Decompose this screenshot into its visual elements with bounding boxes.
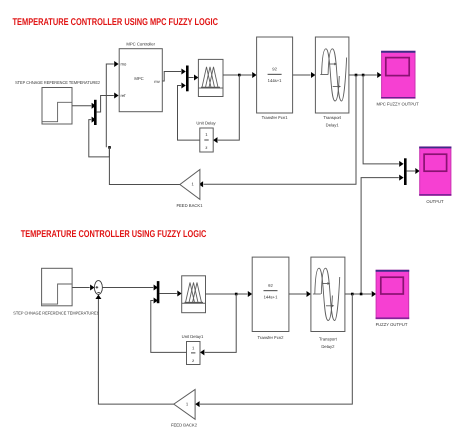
wire Unit Delay to mux2 lower input (178, 83, 200, 141)
transport delay 1 (315, 37, 349, 127)
wire step1 to sum (72, 285, 94, 291)
wire branch to Unit Delay input (213, 75, 239, 143)
fuzzy logic controller 2 (182, 276, 206, 313)
wire fuzzy1 to Transfer Fcn1 (223, 72, 257, 78)
wire TF2 to Transport Delay2 (289, 291, 311, 297)
svg-text:FUZZY OUTPUT: FUZZY OUTPUT (376, 322, 408, 327)
svg-text:92: 92 (268, 283, 273, 288)
wire feedback down to FEED BACK2 (195, 294, 352, 407)
wire FEED BACK2 output to sum minus input (95, 295, 173, 405)
unit delay UD2 (182, 334, 204, 365)
svg-text:STEP CHNAGE REFERENCE TEMPERAT: STEP CHNAGE REFERENCE TEMPERATURE2 (15, 80, 101, 85)
wire TD2 to FUZZY OUTPUT scope (345, 291, 376, 297)
svg-text:Transport: Transport (319, 336, 338, 341)
svg-text:144s+1: 144s+1 (268, 78, 283, 83)
scope OUTPUT (419, 147, 451, 204)
wire feedback to MPC mo (106, 61, 118, 147)
node junction TD1 to output mux (362, 74, 365, 77)
gain FEED BACK2 (171, 390, 198, 428)
wire mux1 to MPC ref (97, 93, 119, 113)
wire Unit Delay1 to mux4 lower input (151, 298, 187, 353)
svg-text:mo: mo (121, 62, 127, 67)
svg-text:Transfer Fcn1: Transfer Fcn1 (262, 115, 289, 120)
svg-text:STEP CHNAGE REFERENCE TEMPERAT: STEP CHNAGE REFERENCE TEMPERATURE1 (13, 311, 99, 316)
step source STEP CHNAGE REFERENCE TEMPERATURE2 (15, 80, 101, 124)
wire fuzzy plant up to output mux bottom (361, 175, 404, 294)
svg-text:92: 92 (272, 67, 277, 72)
mux Mux3 output (404, 158, 407, 185)
node junction mo/mux1 (108, 146, 111, 149)
mux Mux1 (94, 100, 97, 125)
MPC Controller U1 (119, 42, 162, 112)
wire step2 to mux1 (72, 103, 96, 109)
svg-text:Transport: Transport (323, 115, 342, 120)
wire junction to mux1 lower input (89, 117, 110, 157)
node junction fuzzy1 out to unit delay (238, 74, 241, 77)
wire mux4 to fuzzy2 (159, 291, 181, 297)
transfer fcn 2 (252, 257, 289, 340)
wire MPC mv to mux2 (162, 69, 186, 82)
wire FEED BACK1 output to junction (109, 147, 179, 184)
svg-text:MPC FUZZY OUTPUT: MPC FUZZY OUTPUT (376, 102, 419, 107)
svg-text:Delay1: Delay1 (326, 122, 340, 127)
transport delay 2 (311, 257, 345, 349)
wire sum to mux4 (102, 285, 158, 291)
gain FEED BACK1 (176, 170, 203, 209)
node junction TD2 to output mux (360, 293, 363, 296)
mux Mux4 (157, 281, 160, 303)
scope FUZZY OUTPUT (376, 270, 410, 327)
svg-text:144s+1: 144s+1 (264, 294, 279, 299)
wire branch to Unit Delay1 input (200, 294, 236, 355)
node junction TD1 feedback (355, 74, 358, 77)
mux Mux2 (186, 66, 189, 92)
svg-text:z: z (205, 145, 207, 150)
svg-text:MPC Controller: MPC Controller (126, 42, 155, 47)
node junction TD2 feedback (351, 293, 354, 296)
transfer fcn 1 (257, 37, 293, 120)
svg-text:mv: mv (154, 79, 160, 84)
svg-text:Delay2: Delay2 (321, 344, 335, 349)
wire TD1 branch to output mux top (363, 75, 404, 167)
wire mux2 to fuzzy1 (189, 75, 199, 81)
svg-text:z: z (192, 358, 194, 363)
svg-text:TEMPERATURE CONTROLLER USING F: TEMPERATURE CONTROLLER USING FUZZY LOGIC (21, 229, 207, 240)
svg-text:OUTPUT: OUTPUT (426, 199, 444, 204)
wire TD1 to MPC FUZZY OUTPUT scope (349, 72, 382, 78)
svg-text:Unit Delay1: Unit Delay1 (182, 334, 204, 339)
svg-text:Unit Delay: Unit Delay (196, 121, 216, 126)
svg-text:FEED BACK1: FEED BACK1 (176, 203, 203, 208)
scope MPC FUZZY OUTPUT (376, 51, 419, 106)
unit delay UD1 (196, 121, 216, 152)
svg-text:FEED BACK2: FEED BACK2 (171, 423, 198, 428)
wire feedback down to FEED BACK1 (199, 75, 356, 187)
sum S1 (94, 281, 102, 295)
svg-text:ref: ref (121, 93, 127, 98)
wire TF1 to Transport Delay1 (293, 72, 316, 78)
node junction fuzzy2 out to unit delay1 (235, 293, 238, 296)
svg-text:MPC: MPC (134, 76, 143, 81)
svg-text:Transfer Fcn2: Transfer Fcn2 (258, 335, 285, 340)
svg-text:TEMPERATURE CONTROLLER USING M: TEMPERATURE CONTROLLER USING MPC FUZZY L… (13, 17, 219, 28)
step source STEP CHNAGE REFERENCE TEMPERATURE1 (13, 268, 99, 315)
wire fuzzy2 to Transfer Fcn2 (206, 291, 253, 297)
fuzzy logic controller 1 (198, 59, 223, 96)
wire mux3 to OUTPUT scope (407, 168, 420, 174)
